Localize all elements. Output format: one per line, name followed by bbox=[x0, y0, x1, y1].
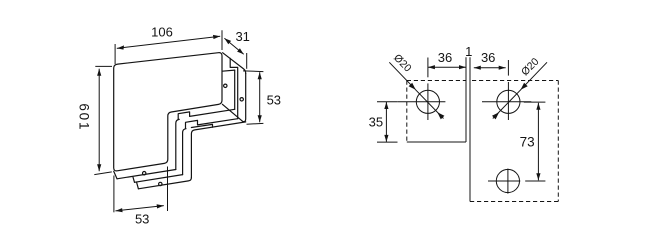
arrowhead 53 right top bbox=[258, 72, 262, 79]
arrowhead 35 up bbox=[384, 102, 388, 109]
arrowhead 53 bottom left bbox=[115, 208, 122, 212]
dim 36 right: line bbox=[474, 67, 506, 69]
arrowhead leader left (points down-right) bbox=[409, 83, 416, 90]
arrowhead 31 upper bbox=[224, 38, 231, 44]
hole circle left bbox=[416, 90, 439, 113]
svg-text:31: 31 bbox=[235, 29, 249, 44]
dim 106 left: dimension line bbox=[98, 69, 100, 172]
dim 35: extension lines bbox=[377, 101, 398, 103]
bottom strip A edge bbox=[117, 170, 176, 179]
back right edge bbox=[243, 74, 246, 122]
arrowhead 106 left top bbox=[97, 69, 101, 76]
bottom depth cut B bbox=[133, 177, 135, 182]
hole circle right-bottom bbox=[496, 169, 519, 192]
top-right depth edge (front TR to back TR) bbox=[223, 53, 246, 74]
svg-text:53: 53 bbox=[135, 212, 149, 227]
dim 53 bottom: extension lines bbox=[113, 176, 115, 213]
panel 2 dashed right edge bbox=[557, 81, 559, 202]
panel 1 solid bottom edge bbox=[407, 141, 466, 143]
arrowhead 106 top left bbox=[117, 45, 124, 49]
bottom slant edge of right end face bbox=[222, 104, 243, 121]
svg-text:73: 73 bbox=[520, 135, 535, 150]
arrowhead 36L right bbox=[459, 65, 466, 69]
left circle diagonal diameter line bbox=[416, 90, 444, 119]
arrowhead 36L left bbox=[428, 65, 435, 69]
svg-text:36: 36 bbox=[438, 50, 452, 65]
back plate right-end step edge bbox=[230, 58, 238, 118]
arrowhead diag left (points up-left) bbox=[437, 112, 444, 119]
svg-text:35: 35 bbox=[369, 115, 383, 130]
panel 1 solid right edge bbox=[465, 57, 467, 142]
glass panel 1 dashed top edge bbox=[407, 80, 466, 82]
dim 31: right extension line bbox=[246, 53, 248, 69]
channel 3 inner corner with tab bbox=[183, 119, 238, 175]
svg-text:106: 106 bbox=[151, 24, 173, 39]
back plate bottom edge bbox=[138, 178, 191, 189]
dim 73: bottom ext bbox=[525, 180, 545, 182]
bottom depth cut A bbox=[114, 171, 117, 179]
svg-text:1: 1 bbox=[465, 44, 472, 59]
panel 2 solid left edge bbox=[469, 57, 471, 201]
arrowhead 106 left bottom bbox=[97, 164, 101, 171]
dim 106 top: dimension line bbox=[117, 36, 220, 48]
dim 53 right: extension lines bbox=[243, 70, 263, 73]
screw circle bottom left bbox=[143, 172, 146, 175]
right-bottom crosshair bbox=[488, 180, 520, 182]
left circle crosshair bbox=[398, 101, 446, 103]
arrowhead 53 right bottom bbox=[258, 115, 262, 122]
panel 2 dashed bottom edge bbox=[470, 201, 558, 203]
arrowhead 36R left bbox=[474, 66, 481, 70]
arrowhead 53 bottom right bbox=[157, 204, 164, 208]
dim 35: dimension line bbox=[385, 102, 387, 142]
panel 2 dashed top edge bbox=[472, 80, 558, 82]
dim 106 left: extension lines bbox=[95, 65, 112, 67]
dim 36 left: left ext (crosshair extension up) bbox=[427, 58, 429, 78]
right-top diagonal diameter line bbox=[493, 90, 521, 119]
arrowhead 35 down bbox=[384, 135, 388, 142]
svg-text:53: 53 bbox=[267, 92, 281, 107]
back top edge sliver bbox=[222, 70, 234, 71]
channel 2 inner corner with tab bbox=[176, 109, 235, 169]
dim 36 left: line bbox=[428, 66, 466, 68]
dim 106 top: extension lines bbox=[114, 44, 116, 64]
glass panel 1 dashed left edge bbox=[406, 81, 408, 142]
arrowhead 106 top right bbox=[213, 35, 220, 39]
screw circle side lower bbox=[240, 98, 243, 101]
front plate L-shaped face bbox=[114, 53, 222, 171]
arrowhead diag right (points up-right) bbox=[492, 112, 499, 119]
arrowhead leader right (points down-left) bbox=[521, 83, 528, 90]
bottom strip B edge bbox=[135, 175, 183, 183]
back plate inner corner bbox=[191, 122, 245, 178]
mid plate right edge bbox=[234, 70, 236, 109]
screw circle bottom right bbox=[159, 182, 162, 185]
svg-text:Ø20: Ø20 bbox=[519, 56, 542, 79]
right-top crosshair bbox=[482, 101, 531, 103]
svg-text:601: 601 bbox=[77, 103, 92, 131]
screw circle side upper bbox=[224, 84, 227, 87]
left leader line bbox=[389, 62, 415, 89]
dim 73: top ext bbox=[524, 101, 546, 103]
dim 31: dimension line bbox=[224, 38, 243, 54]
arrowhead 73 down bbox=[536, 173, 540, 180]
hole circle right-top bbox=[497, 90, 520, 113]
dim 53 bottom: dimension line bbox=[115, 206, 163, 211]
dim 36 right: right ext bbox=[507, 60, 509, 76]
glass edge step line bbox=[191, 124, 212, 127]
svg-text:Ø20: Ø20 bbox=[391, 52, 414, 75]
arrowhead 36R right bbox=[499, 66, 506, 70]
dim 73: line bbox=[537, 103, 539, 181]
right leader line bbox=[521, 62, 547, 89]
svg-text:36: 36 bbox=[481, 50, 495, 65]
dim 53 right: dimension line bbox=[259, 72, 261, 122]
bottom depth cut C bbox=[137, 182, 139, 189]
arrowhead 73 up bbox=[536, 103, 540, 110]
arrowhead 31 lower bbox=[237, 48, 244, 54]
